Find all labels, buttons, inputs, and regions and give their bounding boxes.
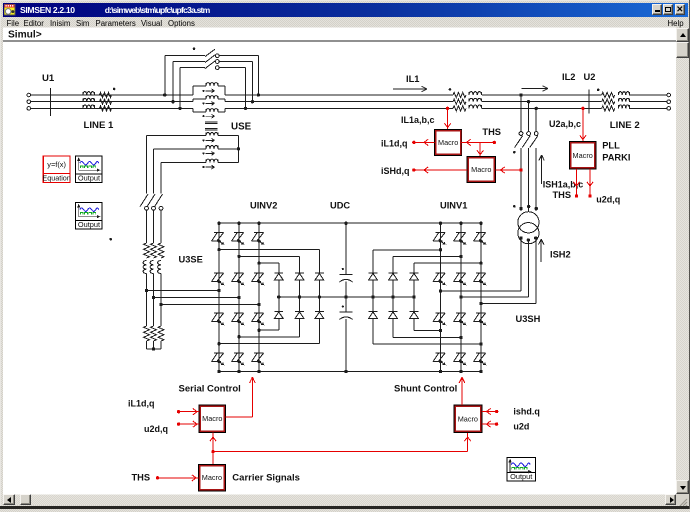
thyristor UINV1 leg3 row4 — [474, 353, 486, 361]
svg-text:iL1d,q: iL1d,q — [381, 138, 408, 148]
svg-text:U2: U2 — [584, 72, 596, 82]
svg-text:UINV2: UINV2 — [250, 201, 277, 211]
wire red THS to carrier — [156, 476, 159, 479]
transformer USE primary b — [192, 99, 194, 102]
inductor U3SE a — [143, 261, 146, 274]
thyristor UINV2 leg2 row1 — [232, 233, 244, 241]
converter UINV2 leg 2 — [238, 223, 240, 371]
svg-text:Macro: Macro — [202, 473, 222, 482]
wire serial feeders — [146, 136, 148, 194]
transformer USE core — [205, 121, 218, 123]
thyristor UINV1 leg2 row3 — [454, 313, 466, 321]
converter UINV1 leg 1 — [440, 223, 442, 371]
converter UINV1 leg 3 — [480, 223, 482, 371]
wire shunt drops from bus — [520, 95, 522, 132]
resistor IL1 — [453, 92, 466, 97]
resistor LINE2 — [602, 92, 615, 97]
thyristor UINV2 leg3 row3 — [252, 313, 264, 321]
svg-text:u2d,q: u2d,q — [144, 424, 168, 434]
prompt separator line — [3, 40, 676, 42]
svg-text:Macro: Macro — [202, 414, 222, 423]
marker dot — [113, 88, 116, 91]
svg-text:Output: Output — [78, 174, 100, 183]
thyristor UINV2 leg1 row2 — [212, 273, 224, 281]
wire red in u2dq — [177, 422, 180, 425]
clamp diode column UINV1 D3 — [413, 263, 415, 273]
clamp diode column UINV2 D2 — [299, 256, 301, 273]
block Output 2 — [76, 203, 103, 221]
resistor U3SE a — [144, 243, 150, 258]
transformer shunt U3SH — [518, 212, 539, 233]
clamp diode column UINV1 D1 — [372, 250, 374, 273]
breaker shunt b — [527, 132, 531, 136]
capacitor C2 UDC — [340, 311, 353, 313]
macro block M4 serial control — [199, 405, 225, 433]
node U1 input terminals — [27, 93, 31, 97]
wire shunt transformer to UINV1 — [520, 238, 522, 291]
thyristor UINV1 leg2 row2 — [454, 273, 466, 281]
transformer USE primary c — [192, 108, 194, 112]
breaker serial c — [155, 194, 163, 207]
svg-text:U3SH: U3SH — [516, 314, 541, 324]
wire red M2 input from shunt — [519, 168, 522, 171]
wire red in u2d — [495, 422, 498, 425]
thyristor UINV2 leg3 row4 — [252, 353, 264, 361]
breaker serial b — [147, 194, 155, 207]
thyristor UINV2 leg1 row4 — [212, 353, 224, 361]
marker dot — [597, 89, 600, 92]
wire DC top rail — [219, 222, 481, 224]
breaker shunt a — [519, 132, 523, 136]
svg-text:Macro: Macro — [573, 151, 593, 160]
svg-text:U2a,b,c: U2a,b,c — [549, 119, 581, 129]
thyristor UINV1 leg2 row4 — [454, 353, 466, 361]
marker dot — [193, 48, 196, 51]
wire UINV2 upper clamp links — [219, 249, 319, 251]
node UINV1 AC taps — [439, 289, 442, 292]
horizontal scrollbar — [3, 494, 676, 505]
resistor LINE1 — [100, 92, 112, 97]
svg-text:PLL: PLL — [602, 141, 620, 151]
wire red serial gate — [225, 416, 252, 418]
wire UINV1 lower clamp links — [414, 330, 441, 332]
svg-text:iSHd,q: iSHd,q — [381, 166, 410, 176]
thyristor UINV1 leg1 row1 — [433, 233, 445, 241]
wire shunt to transformer — [520, 148, 522, 208]
inductor U3SE c — [158, 261, 161, 274]
converter UINV2 leg 1 — [218, 223, 220, 371]
svg-text:u2d: u2d — [513, 422, 529, 432]
macro block M3 PLL — [569, 142, 596, 170]
inductor U3SE b — [150, 261, 153, 274]
arrow ISH2 — [540, 239, 542, 262]
svg-text:Carrier Signals: Carrier Signals — [232, 472, 300, 483]
wire red in ishdq — [495, 410, 498, 413]
inductor IL1 — [469, 92, 481, 95]
inductor LINE1 — [83, 92, 95, 95]
thyristor UINV2 leg2 row4 — [232, 353, 244, 361]
svg-text:iL1d,q: iL1d,q — [128, 399, 155, 409]
wire red shunt gate — [461, 377, 463, 405]
wire red PLL out THS — [576, 169, 578, 196]
resistor serial gnd a — [144, 326, 150, 341]
svg-text:ishd.q: ishd.q — [513, 407, 540, 417]
bottom window edge — [0, 506, 690, 510]
wire red tap IL1abc — [446, 107, 449, 110]
wire red iL1dq output — [414, 141, 435, 143]
arrow IL1 — [393, 88, 427, 90]
marker dot — [109, 238, 112, 241]
svg-text:Macro: Macro — [438, 138, 458, 147]
capacitor C1 UDC — [340, 274, 353, 276]
wire UINV1 upper clamp links — [373, 249, 441, 251]
block Output 1 — [76, 156, 103, 174]
resistor U3SE c — [158, 243, 164, 258]
thyristor UINV1 leg2 row1 — [454, 233, 466, 241]
svg-text:PARKI: PARKI — [602, 152, 630, 162]
voltage probe U1 — [50, 88, 52, 116]
wire red PLL out u2dq — [589, 169, 591, 196]
macro block M6 shunt control — [454, 405, 482, 432]
wire red THS branch to M2 — [479, 142, 481, 156]
clamp diode column UINV2 D3 — [318, 250, 320, 273]
transformer USE secondary c — [206, 159, 218, 162]
block Equation — [43, 156, 70, 173]
svg-text:UINV1: UINV1 — [440, 201, 467, 211]
thyristor UINV2 leg1 row1 — [212, 233, 224, 241]
wire bus phase a — [31, 94, 193, 96]
thyristor UINV2 leg1 row3 — [212, 313, 224, 321]
breaker USE row2 — [173, 61, 205, 63]
thyristor UINV2 leg2 row2 — [232, 273, 244, 281]
wire red carrier to shunt — [213, 451, 468, 453]
macro block M1 line current meas — [435, 129, 462, 155]
svg-text:ISH2: ISH2 — [550, 250, 571, 260]
marker dot — [449, 88, 452, 91]
svg-text:IL1a,b,c: IL1a,b,c — [401, 115, 435, 125]
wire bus phase c — [31, 107, 193, 109]
wire red in iL1dq — [177, 410, 180, 413]
svg-text:u2d,q: u2d,q — [596, 195, 620, 205]
wire serial mid — [146, 210, 148, 243]
wire serial AC taps — [146, 274, 148, 327]
transformer USE primary a — [192, 86, 194, 95]
wire red U2abc tap — [581, 107, 584, 110]
svg-text:Macro: Macro — [471, 165, 491, 174]
title bar — [3, 3, 688, 18]
transformer USE secondary a — [206, 132, 218, 135]
breaker serial a — [140, 194, 148, 207]
thyristor UINV2 leg2 row3 — [232, 313, 244, 321]
arrow IL2 — [522, 88, 549, 90]
wire DC cap column — [345, 223, 347, 274]
svg-text:UDC: UDC — [330, 201, 350, 211]
right window edge — [689, 0, 690, 509]
title text — [20, 5, 209, 15]
wire DC mid rail — [279, 296, 414, 298]
svg-text:U3SE: U3SE — [179, 255, 203, 265]
wire bus phase b — [31, 101, 193, 103]
corner resize grip — [676, 494, 689, 505]
svg-text:Shunt Control: Shunt Control — [394, 384, 457, 395]
marker dot — [513, 205, 516, 208]
converter UINV2 leg 3 — [258, 223, 260, 371]
wire serial star — [146, 341, 148, 349]
svg-text:Macro: Macro — [458, 414, 478, 423]
svg-text:IL1: IL1 — [406, 74, 419, 84]
resistor serial gnd b — [151, 326, 157, 341]
transformer USE secondary b — [206, 145, 218, 148]
svg-text:U1: U1 — [42, 73, 55, 84]
node UINV2 AC taps — [217, 289, 220, 292]
breaker USE row3 — [180, 67, 205, 69]
svg-text:Output: Output — [510, 472, 532, 481]
arrow ISH1 — [541, 155, 543, 184]
wire red THS to M1 — [493, 141, 496, 144]
resistor serial gnd c — [158, 326, 164, 341]
svg-text:IL2: IL2 — [562, 72, 575, 82]
window buttons — [652, 4, 663, 15]
inductor LINE2 — [619, 92, 630, 95]
menu bar — [3, 17, 688, 28]
thyristor UINV2 leg3 row1 — [252, 233, 264, 241]
clamp diode column UINV2 D1 — [278, 263, 280, 273]
svg-text:THS: THS — [482, 127, 501, 137]
svg-text:LINE 1: LINE 1 — [84, 120, 115, 131]
vertical scrollbar — [676, 28, 689, 495]
svg-text:y=f(x): y=f(x) — [47, 160, 66, 169]
resistor U3SE b — [151, 243, 157, 258]
svg-text:Output: Output — [78, 220, 100, 229]
node LINE2 terminals — [667, 93, 671, 97]
svg-text:THS: THS — [553, 190, 572, 200]
svg-text:Equation: Equation — [42, 174, 70, 183]
svg-text:Simul>: Simul> — [8, 29, 42, 40]
macro block M2 shunt current meas — [467, 157, 495, 183]
clamp diode column UINV1 D2 — [392, 257, 394, 274]
thyristor UINV1 leg3 row2 — [474, 273, 486, 281]
wire red carrier to M4 — [212, 432, 214, 464]
thyristor UINV1 leg1 row2 — [433, 273, 445, 281]
svg-text:LINE 2: LINE 2 — [610, 120, 640, 131]
wire UINV2 lower clamp links — [259, 329, 279, 331]
wire DC bottom rail — [219, 371, 481, 373]
thyristor UINV1 leg3 row3 — [474, 313, 486, 321]
thyristor UINV1 leg3 row1 — [474, 233, 486, 241]
breaker shunt c — [534, 132, 538, 136]
macro block M5 carrier signals — [198, 464, 225, 490]
thyristor UINV1 leg1 row4 — [433, 353, 445, 361]
thyristor UINV1 leg1 row3 — [433, 313, 445, 321]
thyristor UINV2 leg3 row2 — [252, 273, 264, 281]
converter UINV1 leg 2 — [460, 223, 462, 371]
block Output 3 — [507, 458, 535, 473]
voltage probe U2 — [588, 89, 590, 113]
wire USE secondary star — [237, 136, 239, 163]
marker dot — [513, 151, 516, 154]
wire red iSHdq output — [414, 169, 467, 171]
breaker USE row1 — [165, 55, 205, 57]
svg-text:USE: USE — [231, 121, 252, 132]
app icon — [4, 4, 16, 16]
svg-text:THS: THS — [132, 472, 151, 482]
svg-text:Serial Control: Serial Control — [179, 384, 241, 395]
